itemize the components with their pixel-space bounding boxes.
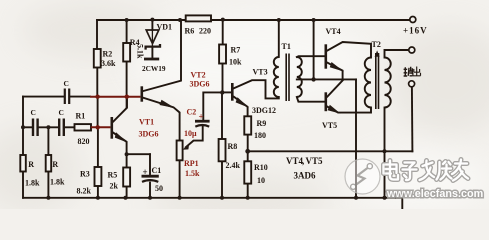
svg-text:R6: R6 — [185, 27, 195, 36]
junction dot rail R6 right / R7 — [221, 18, 225, 22]
wire node to C2 branch — [203, 92, 222, 119]
junction dot center tap node A — [311, 77, 315, 81]
wire VT5 collector — [327, 80, 343, 97]
resistor R9 180 body — [244, 116, 251, 134]
capacitor C feedback plates — [65, 89, 69, 105]
resistor R7 10k body — [219, 45, 226, 64]
wire input line seg3 — [65, 126, 74, 128]
svg-text:+16V: +16V — [403, 26, 428, 36]
capacitor C input no1 plates — [33, 119, 38, 137]
svg-text:+: + — [199, 112, 204, 122]
resistor R4 5.1k body — [123, 43, 130, 62]
svg-text:VT4: VT4 — [286, 156, 304, 166]
svg-text:VT4: VT4 — [326, 27, 341, 36]
wire VT1 emitter to R5 and rail — [126, 154, 128, 198]
svg-text:3DG6: 3DG6 — [139, 130, 159, 139]
wire top supply rail — [97, 19, 409, 21]
wire R4 top lead — [126, 20, 128, 43]
wire T2 secondary bottom lead — [384, 108, 386, 198]
wire node to VT1 base node — [97, 97, 99, 128]
svg-text:3DG6: 3DG6 — [190, 80, 210, 89]
wire T1 secondary bottom lead to VT5 base — [297, 97, 325, 102]
wire bottom ground rail — [23, 197, 402, 199]
svg-text:+: + — [143, 167, 148, 177]
capacitor C input no2 plates — [59, 119, 64, 137]
svg-text:10μ: 10μ — [184, 129, 197, 138]
wire VT1 emitter lead — [113, 133, 126, 155]
wire feedback line — [248, 150, 413, 152]
svg-text:VT1: VT1 — [139, 118, 154, 127]
svg-text:R: R — [52, 160, 58, 169]
svg-text:820: 820 — [78, 137, 90, 146]
wire R10 bottom lead — [247, 184, 249, 198]
wire VT3 base lead — [222, 91, 231, 93]
wire R3 bottom lead — [97, 186, 99, 198]
transformer T1 secondary winding — [297, 57, 302, 97]
junction dot input line C2cap — [46, 125, 50, 129]
resistor R6 220 body — [186, 15, 211, 21]
transistor VT1 base bar — [111, 117, 114, 139]
wire VT5 emitter — [327, 107, 371, 113]
svg-text:VT2: VT2 — [191, 71, 206, 80]
transistor VT1 emitter arrow — [115, 132, 128, 143]
junction dot rail R6 left / VT2 collector — [178, 18, 182, 22]
ground stub vertical — [401, 194, 403, 209]
junction dot rail R4 — [125, 18, 129, 22]
svg-text:220: 220 — [199, 27, 211, 36]
transformer T2 core lines — [376, 53, 379, 109]
transformer T1 core lines — [286, 54, 289, 102]
junction dot rail bottom node A — [354, 196, 358, 200]
junction dot feedback at R9 R10 — [245, 149, 250, 154]
wire input line seg1 — [23, 126, 32, 128]
svg-text:C2: C2 — [187, 108, 197, 117]
wire R 1.8k no2 lead — [47, 127, 49, 198]
resistor R8 2.4k body — [219, 139, 226, 161]
svg-text:R9: R9 — [257, 119, 267, 128]
svg-text:R3: R3 — [80, 170, 90, 179]
wire left input column — [22, 97, 24, 198]
svg-text:VT3: VT3 — [253, 68, 268, 77]
zener diode VD1 cathode bar — [146, 44, 160, 50]
svg-text:2.4k: 2.4k — [226, 161, 241, 170]
transistor VT2 emitter arrow — [160, 100, 176, 108]
junction dot rail T1 primary — [277, 18, 281, 22]
capacitor C1 50 plates — [142, 175, 159, 178]
transistor VT5 emitter arrow — [328, 105, 341, 114]
wire C1 bottom lead — [149, 183, 151, 198]
wire R7 top lead — [222, 20, 224, 45]
wire T1 secondary top lead to VT4 base — [297, 55, 325, 58]
wire R2 branch top — [96, 20, 98, 49]
svg-text:180: 180 — [254, 131, 266, 140]
svg-text:2k: 2k — [110, 182, 119, 191]
label shuchu (output) chinese — [404, 67, 421, 77]
wire VT1 collector — [113, 97, 127, 122]
resistor R5 2k body — [123, 168, 130, 187]
wire center tap vertical — [313, 20, 315, 79]
svg-text:C: C — [31, 108, 36, 117]
transistor VT4 base bar — [325, 44, 328, 68]
wire R2 bottom to node — [96, 68, 98, 97]
terminal output 1 — [409, 47, 415, 53]
wire R8 lead — [221, 92, 223, 197]
svg-text:C1: C1 — [152, 166, 162, 175]
wire R7 bottom lead — [222, 64, 224, 93]
svg-text:2CW19: 2CW19 — [142, 64, 166, 73]
wire C1 top lead — [149, 154, 151, 174]
wire VT3 emitter lead — [234, 97, 248, 117]
ground symbol bar — [392, 193, 411, 195]
junction dot rail bottom R3 — [96, 196, 100, 200]
wire R3 top lead — [97, 127, 99, 167]
wire node A vertical — [355, 79, 357, 197]
terminal +16V — [410, 17, 416, 23]
svg-text:8.2k: 8.2k — [77, 187, 92, 196]
transformer T2 primary winding — [365, 58, 371, 108]
wire T2 secondary top lead to output — [385, 50, 409, 58]
junction dot rail bottom R10 — [246, 196, 250, 200]
wire VD1 anode stub — [151, 48, 153, 58]
zener diode VD1 2CW19 triangle — [146, 30, 159, 44]
wire VT3 collector to T1 primary bottom — [234, 80, 279, 98]
resistor R3 8.2k body — [95, 167, 102, 186]
watermark logo circle — [345, 159, 380, 194]
svg-text:10: 10 — [257, 176, 265, 185]
junction dot rail bottom T2 secondary — [383, 196, 387, 200]
wire VT2 collector to R6 left node — [143, 20, 181, 91]
wire red VT1 base lead — [91, 126, 111, 128]
potentiometer RP1 wiper arrowhead — [183, 144, 190, 150]
wire VT2 emitter diagonal — [143, 98, 179, 141]
transformer T1 primary winding — [274, 57, 279, 97]
wire R4 bottom lead to VT1 collector node — [126, 62, 128, 108]
watermark chinese text dianzifashaoyou — [384, 160, 469, 181]
svg-text:www.elecfans.com: www.elecfans.com — [386, 188, 483, 200]
wire input line seg2 — [39, 126, 57, 128]
wire T1 center tap line to node A — [297, 78, 356, 80]
svg-text:3DG12: 3DG12 — [252, 106, 276, 115]
junction dot rail bottom 1.8k no2 — [46, 196, 50, 200]
svg-text:50: 50 — [155, 184, 163, 193]
svg-text:VD1: VD1 — [157, 23, 173, 32]
svg-text:5.1k: 5.1k — [136, 44, 145, 59]
wire C2 bottom lead to RP1 wiper — [186, 127, 203, 147]
svg-text:R10: R10 — [254, 163, 268, 172]
junction dot rail bottom RP1 — [178, 196, 182, 200]
transistor VT2 base bar — [141, 86, 144, 101]
wire output terminal 2 down — [411, 87, 414, 151]
transformer T2 core arrow — [375, 50, 380, 56]
junction dot red VT1 base — [96, 125, 100, 129]
junction dot rail bottom R5 — [124, 196, 128, 200]
transistor VT4 emitter arrow — [330, 62, 344, 72]
wire feedback top line left — [23, 96, 64, 98]
svg-text:R7: R7 — [231, 46, 241, 55]
svg-text:1.8k: 1.8k — [25, 179, 40, 188]
svg-text:T1: T1 — [282, 42, 291, 51]
svg-text:R8: R8 — [228, 142, 238, 151]
resistor R1 820 body — [75, 124, 92, 130]
resistor R2 3.6k body — [94, 49, 101, 68]
junction dot rail center tap — [312, 18, 316, 22]
svg-text:10k: 10k — [229, 58, 242, 67]
svg-text:VT5: VT5 — [322, 121, 337, 130]
transistor VT3 emitter arrow — [236, 97, 249, 108]
svg-text:R: R — [28, 160, 34, 169]
wire RP1 bottom lead — [179, 160, 181, 198]
svg-text:3AD6: 3AD6 — [294, 171, 316, 181]
VD1 anode terminal bar — [144, 58, 159, 61]
junction dot red R2 node — [95, 95, 99, 99]
wire VT4 emitter — [327, 63, 342, 80]
junction dot VT1 emitter branch — [125, 152, 129, 156]
junction dot rail VD1 — [150, 18, 154, 22]
svg-text:C: C — [64, 79, 69, 88]
svg-text:1.5k: 1.5k — [185, 169, 200, 178]
resistor R 1.8k no1 body — [20, 155, 26, 172]
resistor R10 10 body — [244, 161, 251, 183]
svg-text:3.6k: 3.6k — [101, 59, 116, 68]
wire VT4 collector to T2 primary top — [327, 42, 371, 58]
transformer T2 secondary winding — [385, 58, 391, 108]
junction dot feedback at T2 secondary — [383, 149, 387, 153]
svg-text:R1: R1 — [76, 112, 86, 121]
junction dot rail bottom C1 — [148, 196, 152, 200]
junction dot VT3 base node — [220, 90, 224, 94]
svg-text:C: C — [59, 108, 64, 117]
junction dot red R4 VT1 collector — [125, 95, 129, 99]
svg-text:VT5: VT5 — [306, 156, 324, 166]
svg-text:RP1: RP1 — [184, 159, 199, 168]
wire R9 to R10 link — [247, 135, 249, 162]
svg-text:T2: T2 — [372, 40, 381, 49]
wire T1 primary top lead — [278, 20, 280, 57]
wire feedback top line right — [70, 96, 90, 98]
potentiometer RP1 body — [177, 141, 183, 161]
transistor VT3 base bar — [231, 83, 234, 101]
wire VD1 top lead — [151, 20, 153, 30]
wire VD1 through lead — [151, 30, 153, 46]
svg-text:1.8k: 1.8k — [50, 178, 65, 187]
svg-text:R5: R5 — [108, 171, 118, 180]
resistor R 1.8k no2 body — [46, 155, 52, 172]
junction dot rail bottom R8 — [220, 196, 224, 200]
transistor VT5 base bar — [325, 92, 328, 111]
terminal output 2 — [409, 81, 415, 87]
svg-text:R2: R2 — [103, 50, 113, 59]
wire red signal line VT1 collector to VT2 base — [90, 96, 140, 98]
svg-text:,: , — [302, 156, 304, 166]
wire emitter branch to C1 — [127, 153, 150, 155]
capacitor C2 10u plates — [195, 120, 210, 123]
junction dot input left column — [21, 125, 25, 129]
